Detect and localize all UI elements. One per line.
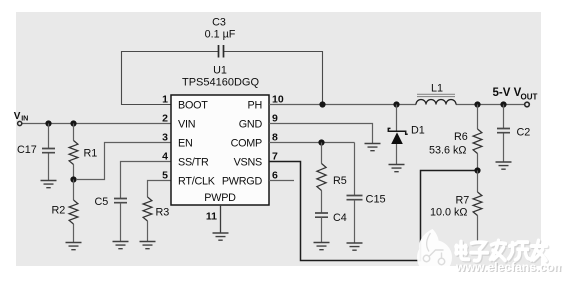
ground under D1 [389,165,405,172]
svg-text:R2: R2 [52,205,66,217]
svg-text:C3: C3 [212,17,226,29]
svg-text:TPS54160DGQ: TPS54160DGQ [182,77,259,89]
svg-text:R3: R3 [156,207,170,219]
watermark glyph fa [491,240,506,260]
svg-text:OUT: OUT [521,93,538,102]
wire C5 bottom lead [120,203,122,242]
svg-text:0.1 µF: 0.1 µF [205,28,236,40]
wire BOOT-C3-PH loop [122,52,323,105]
svg-text:IN: IN [21,114,28,123]
wire VSNS feedback route [269,162,478,261]
svg-text:BOOT: BOOT [178,99,208,111]
svg-text:C2: C2 [517,127,531,139]
svg-text:C15: C15 [366,194,386,206]
capacitor C17 [42,149,55,153]
svg-text:5-V V: 5-V V [493,87,522,99]
ground under C2 [496,162,512,169]
wire PWRGD stub [269,180,294,182]
wire R3 bottom lead [147,221,149,242]
watermark chinese text shadow [457,242,548,262]
svg-text:U1: U1 [213,65,227,77]
watermark glyph dian [456,242,469,260]
node junction R6 tap [474,101,480,107]
svg-text:EN: EN [178,137,193,149]
svg-text:1: 1 [162,94,168,106]
capacitor C15 [347,196,363,200]
svg-text:R1: R1 [84,148,98,160]
capacitor C3 [219,45,224,58]
svg-text:www.elecfans.com: www.elecfans.com [455,260,563,274]
ground at pin 9 [365,144,381,151]
node junction C3/PH [319,101,325,107]
svg-text:L1: L1 [431,83,443,95]
svg-text:R6: R6 [454,131,468,143]
svg-text:PWRGD: PWRGD [222,175,263,187]
wire D1 leads [396,105,398,165]
svg-text:PWPD: PWPD [204,192,236,204]
svg-text:D1: D1 [411,125,425,137]
wire C17 leads [48,124,50,181]
IC U1 TPS54160DGQ body [171,95,269,205]
ground under pin 11 [213,233,229,240]
svg-text:10: 10 [272,94,284,106]
svg-text:5: 5 [162,170,168,182]
inductor L1 core lines [417,94,455,96]
svg-text:V: V [14,111,21,122]
svg-text:GND: GND [239,118,263,130]
node junction R1/R2/EN [70,176,76,182]
wire R7 leads [477,171,479,243]
node junction R6/R7 feedback [474,167,480,173]
svg-text:PH: PH [248,99,263,111]
wire C15 bottom lead [354,200,356,243]
capacitor C5 [114,199,127,203]
svg-text:RT/CLK: RT/CLK [178,175,216,187]
watermark glyph zi [471,242,488,261]
node junction R5 tap [318,139,324,145]
svg-text:3: 3 [162,132,168,144]
wire R5 leads [321,143,323,214]
resistor R2 [69,200,78,224]
svg-text:11: 11 [206,211,217,223]
capacitor C4 [315,213,328,217]
svg-text:C4: C4 [333,212,347,224]
svg-text:6: 6 [272,170,278,182]
svg-text:53.6 kΩ: 53.6 kΩ [429,145,466,157]
svg-text:10.0 kΩ: 10.0 kΩ [430,207,467,219]
watermark glyph shao [509,242,530,260]
resistor R6 [473,129,482,154]
watermark glyph you [531,240,547,260]
resistor R7 [473,192,482,216]
inductor L1 winding [416,100,456,105]
svg-text:2: 2 [162,113,168,125]
pin 11 lead [220,205,222,233]
wire VIN input rail (pin 2 row) [22,123,171,125]
watermark chinese text dianzifashaoyou [456,240,547,260]
wire R6 leads [477,105,479,171]
label 5-V VOUT [493,87,538,102]
capacitor C2 [497,129,510,133]
wire RT/CLK route to R3 [148,181,172,198]
svg-text:7: 7 [272,151,278,163]
svg-text:VIN: VIN [178,118,195,130]
node VOUT terminal [525,102,530,107]
ground under C4 [314,243,330,250]
node junction C17 tap [45,120,51,126]
wire C2 leads [503,105,505,163]
svg-text:C5: C5 [95,196,109,208]
wire C4 bottom lead [321,217,323,242]
wire COMP rail [269,142,355,144]
wire EN route [76,143,171,180]
ground under R3 [140,242,156,249]
wire PH rail [269,104,525,106]
wire GND pin9 route [269,124,373,144]
node VIN input terminal [18,121,22,125]
watermark logo leaf and circle [417,229,452,275]
svg-text:SS/TR: SS/TR [178,156,209,168]
wire R2 leads [73,180,75,243]
wire SS/TR route to C5 [121,162,172,199]
svg-text:R7: R7 [456,195,470,207]
resistor R1 [69,141,78,165]
svg-text:9: 9 [272,113,278,125]
label VIN [14,111,29,123]
svg-text:4: 4 [162,151,168,163]
wire C15 top lead [354,143,356,196]
ground under C15 [347,243,363,250]
ground under R2 [66,243,82,250]
node junction R1 tap [70,120,76,126]
svg-text:VSNS: VSNS [234,156,262,168]
svg-text:8: 8 [272,132,278,144]
ground under C17 [41,181,57,188]
watermark url www.elecfans.com [455,260,563,275]
node junction D1 tap [393,101,399,107]
ground under C5 [113,242,129,249]
svg-text:C17: C17 [17,144,37,156]
resistor R5 [317,164,326,191]
resistor R3 [143,197,152,221]
node junction C2 tap [500,101,506,107]
wire R1 leads [73,124,75,180]
svg-text:R5: R5 [333,175,347,187]
svg-text:COMP: COMP [231,137,262,149]
diode D1 schottky [388,128,407,144]
